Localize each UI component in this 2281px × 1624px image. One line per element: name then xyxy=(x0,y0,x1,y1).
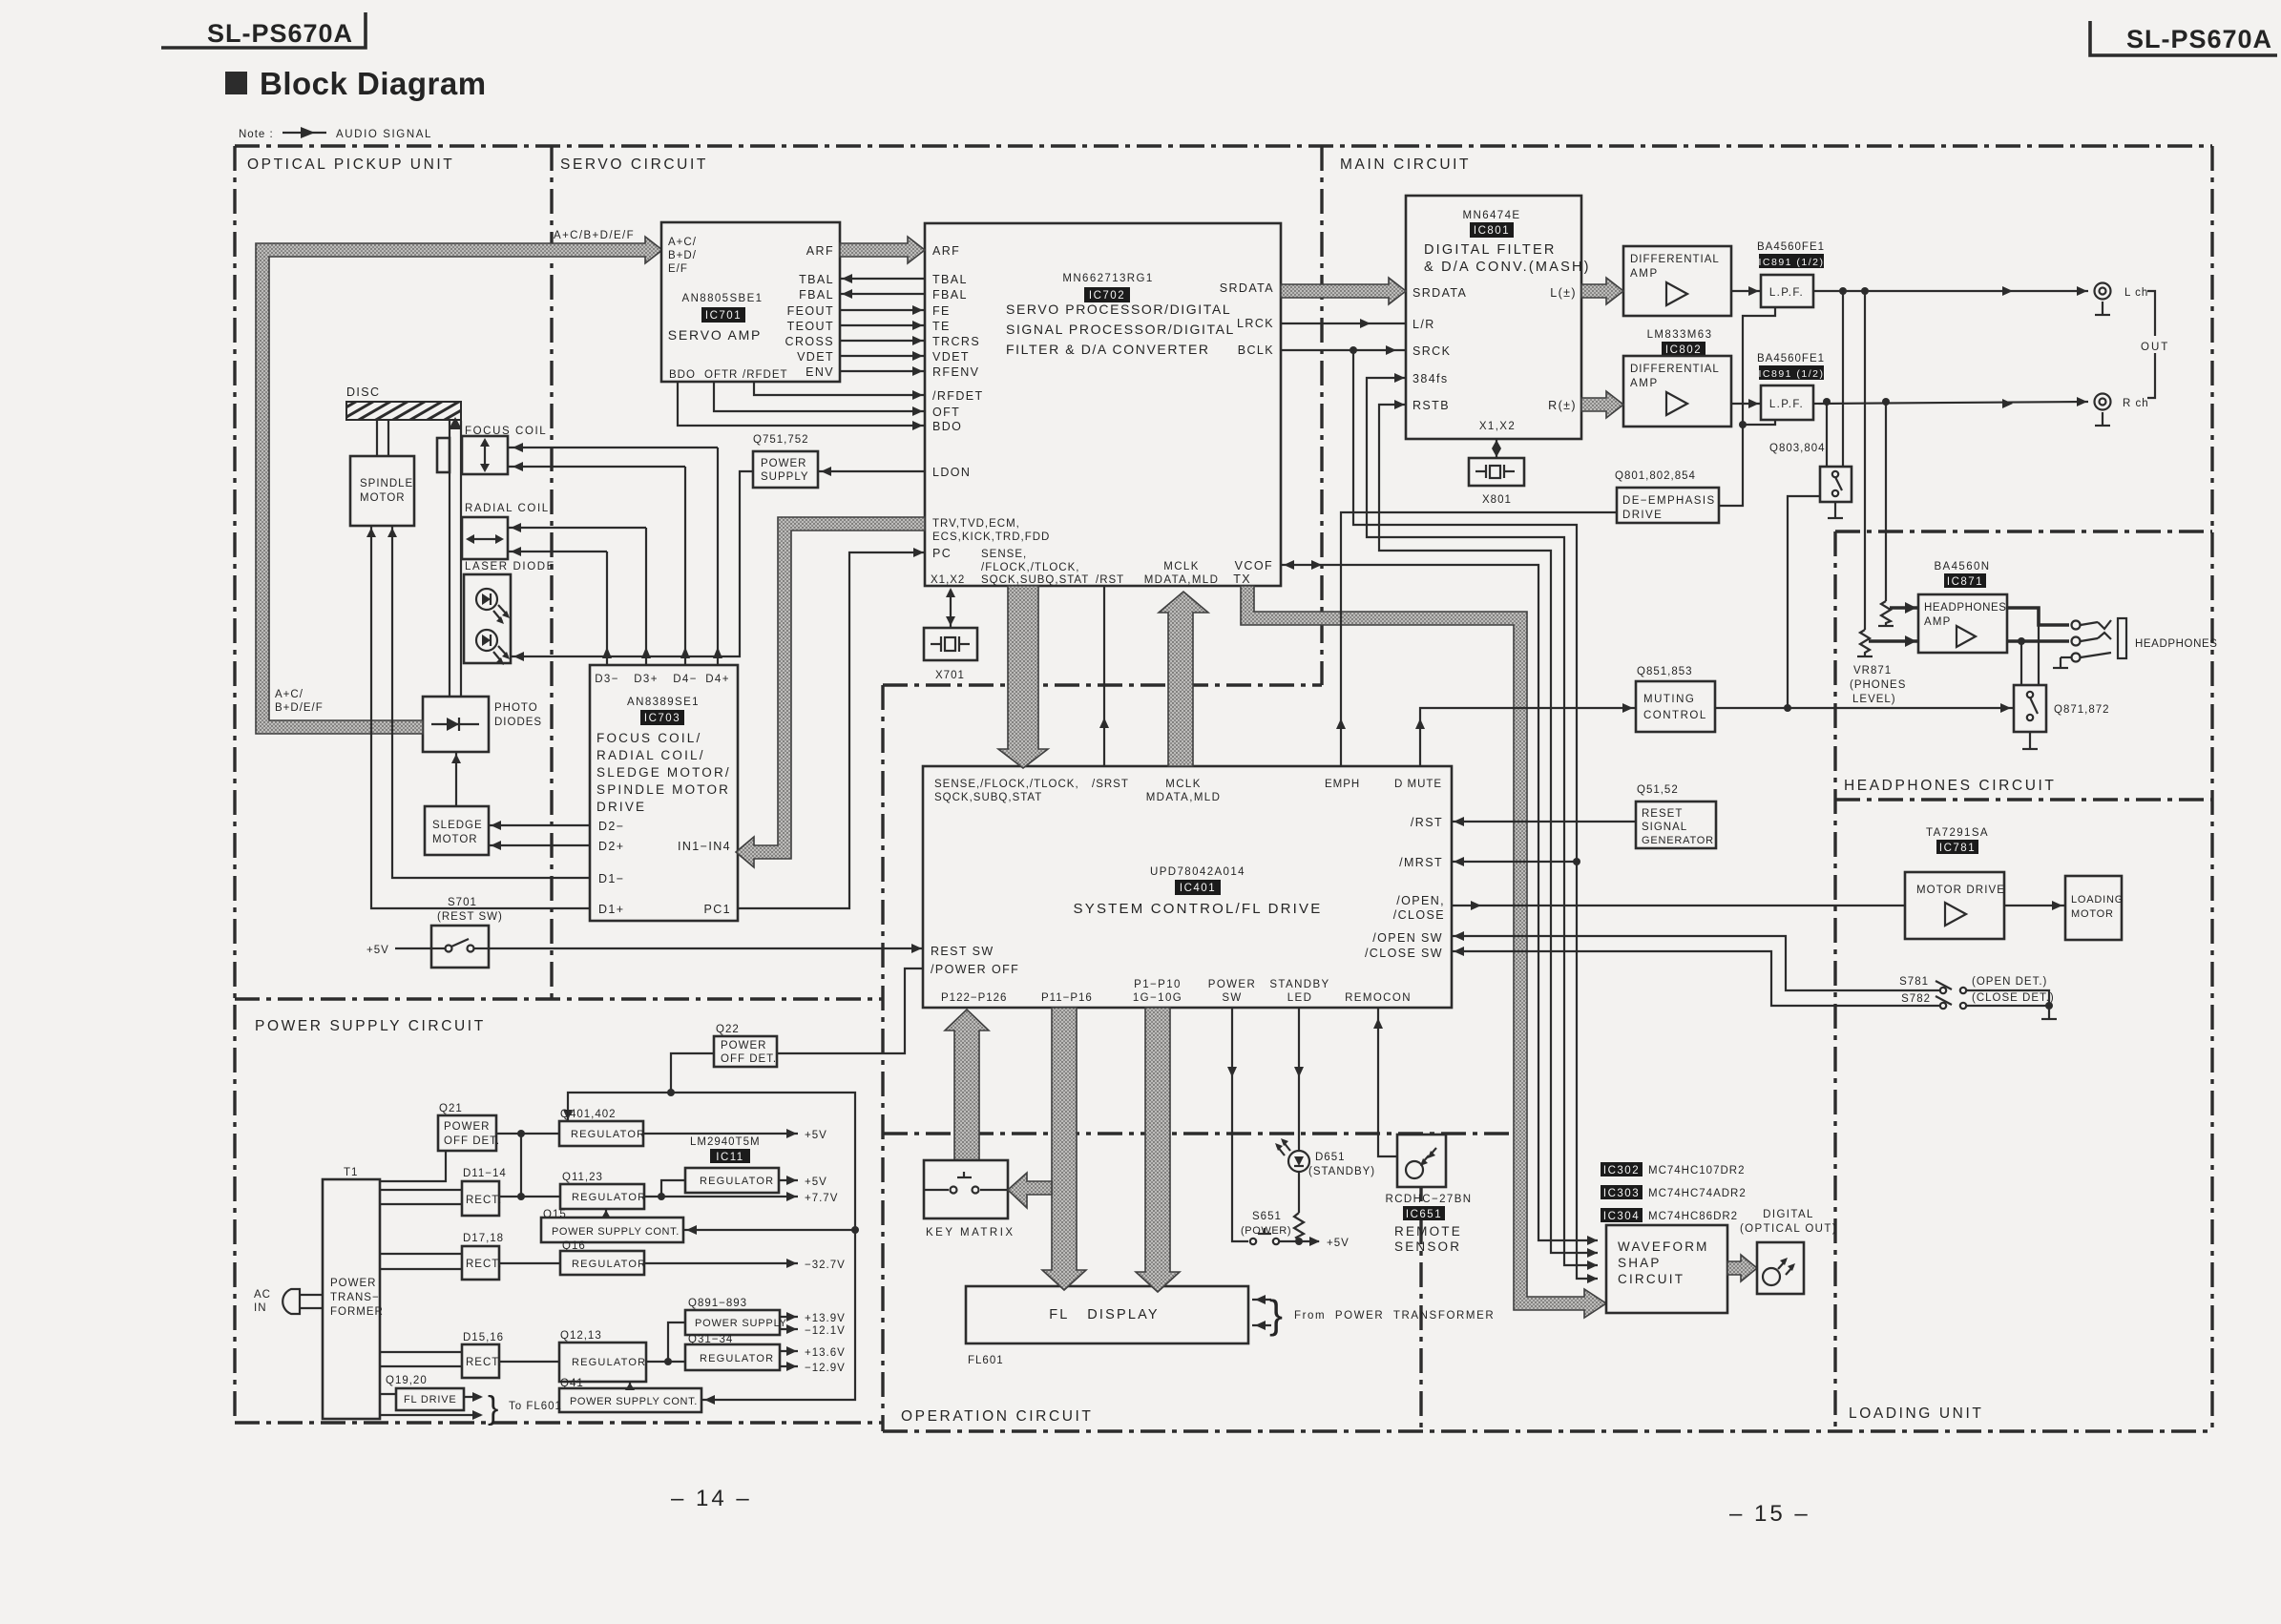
svg-text:TRCRS: TRCRS xyxy=(932,335,980,348)
svg-text:MN662713RG1: MN662713RG1 xyxy=(1062,273,1153,284)
wire laser beam path xyxy=(449,421,450,697)
wire motor drive to loading motor xyxy=(2004,905,2065,906)
wire /OPEN SW from S781 xyxy=(1452,936,1939,990)
svg-text:IC302: IC302 xyxy=(1603,1165,1640,1176)
svg-text:RECT.: RECT. xyxy=(466,1195,502,1206)
svg-text:IN: IN xyxy=(254,1302,267,1314)
svg-text:/RFDET: /RFDET xyxy=(932,389,984,403)
filter L.P.F. L (IC891) xyxy=(1757,241,1825,307)
svg-text:SERVO AMP: SERVO AMP xyxy=(668,327,762,343)
IC302 chip label xyxy=(1601,1162,1745,1176)
svg-text:(POWER): (POWER) xyxy=(1241,1225,1291,1237)
wire L audio line to L ch xyxy=(1813,290,2088,292)
svg-text:LEVEL): LEVEL) xyxy=(1852,694,1896,705)
wire photodiodes-sledge xyxy=(455,752,457,806)
svg-text:SL-PS670A: SL-PS670A xyxy=(207,19,353,48)
wires IC701-IC702 FE..RFENV (right arrows) xyxy=(840,309,925,311)
svg-text:Q851,853: Q851,853 xyxy=(1637,666,1693,677)
svg-text:S701: S701 xyxy=(448,897,477,908)
svg-text:+5V: +5V xyxy=(805,1176,827,1188)
IC703 focus/radial/sledge/spindle drive xyxy=(590,665,738,921)
wire IC801 to X801 (double arrow) xyxy=(1496,439,1497,458)
FL drive Q19,20 xyxy=(386,1375,464,1410)
svg-text:TBAL: TBAL xyxy=(932,273,968,286)
wire Q22 left distribution xyxy=(671,1053,855,1400)
focus coil xyxy=(437,426,547,474)
node L ch connector xyxy=(2095,283,2149,316)
wires spindle motor to IC703 xyxy=(392,526,590,878)
regulator Q16 xyxy=(560,1240,646,1275)
svg-text:SIGNAL: SIGNAL xyxy=(1642,822,1687,833)
svg-text:MOTOR: MOTOR xyxy=(2071,908,2114,920)
wire X701 to IC702 X1,X2 (double arrow) xyxy=(950,590,952,628)
svg-text:T1: T1 xyxy=(344,1167,358,1178)
servo bottom xyxy=(883,683,1322,686)
wire diff amp L to LPF xyxy=(1731,290,1761,292)
operation top xyxy=(883,1132,1514,1135)
svg-text:OFTR: OFTR xyxy=(704,369,738,381)
wires amp outputs to jack xyxy=(2007,608,2069,625)
wire de-emphasis to LPFs xyxy=(1719,307,1775,506)
ground below Q803 xyxy=(1834,502,1836,518)
svg-text:384fs: 384fs xyxy=(1413,372,1449,385)
svg-text:TBAL: TBAL xyxy=(799,273,834,286)
svg-text:D15,16: D15,16 xyxy=(463,1332,504,1343)
svg-text:REGULATOR: REGULATOR xyxy=(571,1129,645,1140)
Q751,752 power supply xyxy=(753,434,818,488)
regulator Q12,13 xyxy=(559,1330,646,1382)
bus L(+-) to diff amp xyxy=(1581,278,1623,304)
svg-text:D2−: D2− xyxy=(598,820,624,833)
svg-text:HEADPHONES CIRCUIT: HEADPHONES CIRCUIT xyxy=(1844,778,2056,794)
svg-text:KEY MATRIX: KEY MATRIX xyxy=(926,1227,1015,1239)
svg-text:MDATA,MLD: MDATA,MLD xyxy=(1144,574,1220,586)
wire Q11,23 out rail xyxy=(644,1196,798,1197)
bus P122-P126 to key matrix xyxy=(945,1010,989,1160)
bus SRDATA IC702 to IC801 xyxy=(1281,278,1406,304)
operation right xyxy=(1419,1134,1422,1431)
svg-text:A+C/B+D/E/F: A+C/B+D/E/F xyxy=(554,230,635,241)
wires coils to IC703 xyxy=(508,447,718,448)
svg-text:SLEDGE MOTOR/: SLEDGE MOTOR/ xyxy=(596,765,731,780)
wire disc-spindle right xyxy=(387,420,389,456)
svg-text:AC: AC xyxy=(254,1289,271,1301)
svg-text:OFF DET.: OFF DET. xyxy=(721,1053,777,1065)
svg-text:LED: LED xyxy=(1287,992,1313,1004)
wire BCLK to SRCK xyxy=(1281,349,1406,351)
svg-text:BCLK: BCLK xyxy=(1238,344,1274,357)
svg-text:SRDATA: SRDATA xyxy=(1413,286,1467,300)
svg-text:SLEDGE: SLEDGE xyxy=(432,820,483,831)
de-emphasis drive Q801 xyxy=(1615,470,1719,523)
svg-text:MUTING: MUTING xyxy=(1643,694,1695,705)
wire REST SW to IC401 xyxy=(489,947,923,949)
svg-text:POWER SUPPLY CIRCUIT: POWER SUPPLY CIRCUIT xyxy=(255,1018,486,1034)
svg-text:REGULATOR: REGULATOR xyxy=(572,1259,646,1270)
svg-text:RECT.: RECT. xyxy=(466,1357,502,1368)
headphones top xyxy=(1835,530,2212,532)
svg-text:REGULATOR: REGULATOR xyxy=(700,1176,774,1187)
crystal X701 xyxy=(924,628,977,681)
power supply Q891-893 xyxy=(685,1298,787,1335)
svg-text:AN8389SE1: AN8389SE1 xyxy=(627,697,700,708)
wire 384fs nested line 3 xyxy=(1367,378,1598,1265)
svg-text:DRIVE: DRIVE xyxy=(1622,510,1663,521)
waveform shap circuit xyxy=(1606,1225,1727,1313)
svg-text:/FLOCK,/TLOCK,: /FLOCK,/TLOCK, xyxy=(981,562,1079,573)
svg-text:TX: TX xyxy=(1233,573,1251,586)
svg-text:Note :: Note : xyxy=(239,129,274,140)
svg-text:CROSS: CROSS xyxy=(785,335,834,348)
IC304 chip label xyxy=(1601,1208,1738,1222)
svg-text:AN8805SBE1: AN8805SBE1 xyxy=(682,293,764,304)
svg-text:FILTER & D/A CONVERTER: FILTER & D/A CONVERTER xyxy=(1006,342,1210,357)
svg-text:MAIN CIRCUIT: MAIN CIRCUIT xyxy=(1340,156,1471,173)
svg-text:FBAL: FBAL xyxy=(799,288,834,302)
svg-text:POWER: POWER xyxy=(721,1040,766,1051)
svg-text:(PHONES: (PHONES xyxy=(1850,679,1906,691)
wires Q871 taps to headphone lines xyxy=(2020,641,2022,685)
rectifier D11-14 xyxy=(462,1168,507,1216)
transistor Q871,872 mute switch xyxy=(2014,685,2110,732)
svg-text:POWER SUPPLY CONT.: POWER SUPPLY CONT. xyxy=(552,1226,680,1238)
svg-text:D1−: D1− xyxy=(598,872,624,885)
svg-text:EMPH: EMPH xyxy=(1325,779,1360,790)
svg-text:/RST: /RST xyxy=(1096,574,1124,586)
svg-text:IC781: IC781 xyxy=(1939,843,1976,854)
svg-text:PC: PC xyxy=(932,547,952,560)
LED D651 standby xyxy=(1275,1008,1375,1177)
svg-text:IC802: IC802 xyxy=(1665,344,1702,356)
svg-text:+5V: +5V xyxy=(366,945,389,956)
remote sensor IC651 xyxy=(1385,1135,1472,1254)
optical/servo divider xyxy=(550,146,553,999)
svg-text:+5V: +5V xyxy=(1327,1238,1350,1249)
svg-text:RFENV: RFENV xyxy=(932,365,979,379)
svg-text:X701: X701 xyxy=(935,670,965,681)
wire RSTB nested line 4 xyxy=(1379,405,1598,1253)
svg-text:ENV: ENV xyxy=(806,365,834,379)
wire Q21 output rail xyxy=(496,1133,559,1135)
main circuit left xyxy=(1320,146,1323,685)
svg-text:IC303: IC303 xyxy=(1603,1188,1640,1199)
wires Q803 taps to audio lines xyxy=(1826,402,1828,467)
svg-text:D3+: D3+ xyxy=(634,674,659,685)
wire Q22 to IC401 /POWER OFF xyxy=(777,968,923,1053)
bus arrow to key matrix xyxy=(1008,1173,1052,1208)
svg-text:From POWER TRANSFORMER: From POWER TRANSFORMER xyxy=(1294,1310,1495,1322)
bus ARF IC701 to IC702 xyxy=(840,237,925,263)
node R ch connector xyxy=(2095,394,2149,427)
svg-text:ARF: ARF xyxy=(932,244,960,258)
svg-text:B+D/E/F: B+D/E/F xyxy=(275,702,324,714)
svg-text:IN1−IN4: IN1−IN4 xyxy=(678,840,731,853)
svg-text:MN6474E: MN6474E xyxy=(1463,210,1521,221)
from power transformer arrows xyxy=(1252,1292,1495,1337)
regulator Q11,23 xyxy=(560,1172,646,1209)
svg-text:DIGITAL: DIGITAL xyxy=(1763,1209,1814,1220)
svg-text:IC801: IC801 xyxy=(1474,225,1510,237)
svg-text:REGULATOR: REGULATOR xyxy=(700,1353,774,1364)
outer frame top xyxy=(235,144,2212,147)
svg-text:TA7291SA: TA7291SA xyxy=(1926,827,1989,839)
filter L.P.F. R (IC891) xyxy=(1757,353,1825,420)
transistor Q851,853 muting control xyxy=(1636,666,1715,732)
svg-text:MOTOR: MOTOR xyxy=(432,834,478,845)
svg-text:Q891−893: Q891−893 xyxy=(688,1298,747,1309)
svg-text:FBAL: FBAL xyxy=(932,288,968,302)
ground below Q871 xyxy=(2029,732,2031,749)
resistor VR871 L tap xyxy=(1864,291,1866,630)
svg-text:VCOF: VCOF xyxy=(1235,559,1273,573)
svg-text:MC74HC107DR2: MC74HC107DR2 xyxy=(1648,1165,1745,1176)
svg-text:STANDBY: STANDBY xyxy=(1269,979,1329,990)
svg-text:SHAP: SHAP xyxy=(1618,1256,1662,1270)
node digital optical out xyxy=(1740,1209,1837,1294)
bus MCLK xyxy=(1159,592,1208,766)
svg-text:LM833M63: LM833M63 xyxy=(1647,329,1713,341)
bus waveform to optical out xyxy=(1727,1255,1757,1281)
switch S782 close det xyxy=(1901,992,2055,1009)
rectifier D17,18 xyxy=(462,1233,504,1280)
svg-text:P1−P10: P1−P10 xyxy=(1134,979,1182,990)
wire LRCK to L/R xyxy=(1281,323,1406,324)
svg-text:REMOCON: REMOCON xyxy=(1345,992,1412,1004)
op-amp IC802 differential amp L xyxy=(1623,246,1731,316)
svg-text:A+C/: A+C/ xyxy=(668,237,697,248)
AC IN plug xyxy=(254,1289,323,1314)
svg-text:/OPEN,: /OPEN, xyxy=(1396,894,1445,907)
switch S781 open det xyxy=(1899,976,2049,1006)
wire /RST from reset gen xyxy=(1452,821,1636,822)
svg-text:AMP: AMP xyxy=(1630,268,1659,280)
wire /SRST xyxy=(1103,586,1105,766)
ground S781/S782 xyxy=(2048,1006,2050,1019)
svg-text:SIGNAL PROCESSOR/DIGITAL: SIGNAL PROCESSOR/DIGITAL xyxy=(1006,322,1235,337)
svg-text:L.P.F.: L.P.F. xyxy=(1769,399,1804,410)
svg-text:LOADING UNIT: LOADING UNIT xyxy=(1849,1405,1983,1422)
wire SRCK branch nested line 2 xyxy=(1353,350,1598,1279)
headphone jack xyxy=(2081,618,2218,658)
svg-text:BDO: BDO xyxy=(932,420,962,433)
svg-text:Q751,752: Q751,752 xyxy=(753,434,809,446)
headphones bottom / loading top xyxy=(1835,798,2212,801)
svg-text:MOTOR: MOTOR xyxy=(360,492,406,504)
bus P1-P10 to FL display xyxy=(1136,1008,1180,1292)
svg-text:D651: D651 xyxy=(1315,1152,1346,1163)
wires VR taps into amp xyxy=(1890,606,1918,610)
wire POWER SW down to S651 xyxy=(1232,1008,1248,1241)
Block Diagram heading xyxy=(225,66,487,101)
svg-text:B+D/: B+D/ xyxy=(668,250,697,261)
wire laser diode to Q751 power supply xyxy=(511,471,753,656)
svg-text:S782: S782 xyxy=(1901,993,1931,1005)
svg-text:ECS,KICK,TRD,FDD: ECS,KICK,TRD,FDD xyxy=(932,531,1050,543)
bus R(+-) to diff amp xyxy=(1581,391,1623,418)
svg-text:IC651: IC651 xyxy=(1406,1209,1442,1220)
bus TRV,TVD... IC702 to IC703 IN1-IN4 xyxy=(736,517,925,867)
svg-text:TRV,TVD,ECM,: TRV,TVD,ECM, xyxy=(932,518,1020,530)
svg-text:D1+: D1+ xyxy=(598,903,624,916)
svg-text:−12.1V: −12.1V xyxy=(805,1325,846,1337)
svg-text:IC702: IC702 xyxy=(1089,290,1125,302)
svg-text:−32.7V: −32.7V xyxy=(805,1260,846,1271)
headphones/loading left xyxy=(1833,531,1836,1428)
svg-text:(STANDBY): (STANDBY) xyxy=(1308,1166,1375,1177)
svg-text:TEOUT: TEOUT xyxy=(787,320,834,333)
rectifier D15,16 xyxy=(462,1332,504,1378)
regulator Q401,402 xyxy=(559,1109,645,1146)
transistor Q21 power off det xyxy=(438,1103,500,1151)
transistor Q15 power supply cont xyxy=(541,1209,683,1242)
op-amp IC802 differential amp R xyxy=(1623,329,1731,427)
op-amp IC701 servo amp AN8805SBE1 xyxy=(661,222,840,382)
svg-text:DIODES: DIODES xyxy=(494,717,542,728)
svg-text:RADIAL COIL/: RADIAL COIL/ xyxy=(596,748,705,762)
svg-text:D MUTE: D MUTE xyxy=(1394,779,1442,790)
transistor Q22 power off det xyxy=(714,1024,777,1067)
svg-text:LRCK: LRCK xyxy=(1237,317,1274,330)
wire REMOCON to remote sensor xyxy=(1378,1008,1397,1156)
svg-text:/RFDET: /RFDET xyxy=(743,369,788,381)
svg-text:GENERATOR: GENERATOR xyxy=(1642,835,1714,846)
S701 rest switch xyxy=(431,897,503,968)
outer frame right xyxy=(2210,146,2213,1431)
svg-text:D11−14: D11−14 xyxy=(463,1168,507,1179)
wire Q751 to IC702 LDON xyxy=(818,470,925,472)
svg-text:IC891 (1/2): IC891 (1/2) xyxy=(1758,257,1824,268)
svg-text:X1,X2: X1,X2 xyxy=(1479,421,1516,432)
IC303 chip label xyxy=(1601,1185,1747,1199)
IC401 system control / FL drive xyxy=(923,766,1452,1008)
crystal X801 xyxy=(1469,458,1524,506)
svg-text:POWER: POWER xyxy=(1208,979,1256,990)
svg-text:/SRST: /SRST xyxy=(1092,779,1129,790)
svg-text:CONTROL: CONTROL xyxy=(1643,710,1707,721)
svg-text:OPERATION CIRCUIT: OPERATION CIRCUIT xyxy=(901,1408,1094,1425)
radial coil xyxy=(462,503,550,559)
wires IC701 bottom to IC702 /RFDET OFT BDO xyxy=(754,382,925,395)
svg-text:D4−: D4− xyxy=(673,674,698,685)
svg-text:OFT: OFT xyxy=(932,406,960,419)
svg-text:SERVO CIRCUIT: SERVO CIRCUIT xyxy=(560,156,708,173)
spindle motor xyxy=(350,456,414,526)
wire D MUTE to muting control xyxy=(1420,708,1636,766)
svg-text:MCLK: MCLK xyxy=(1165,779,1202,790)
svg-text:SENSE,/FLOCK,/TLOCK,: SENSE,/FLOCK,/TLOCK, xyxy=(934,779,1079,790)
wire VCOF nested line 1 xyxy=(1281,565,1598,1240)
svg-text:Q12,13: Q12,13 xyxy=(560,1330,602,1342)
transistor Q41 power supply cont xyxy=(559,1378,701,1412)
svg-text:R ch: R ch xyxy=(2123,398,2149,409)
bus A+C/B+D/E/F photo diodes to servo amp xyxy=(256,237,662,734)
svg-text:IC401: IC401 xyxy=(1180,883,1216,894)
resistor below D651 xyxy=(1298,1172,1300,1213)
svg-text:/CLOSE SW: /CLOSE SW xyxy=(1365,947,1443,960)
laser diode xyxy=(464,561,555,665)
wire EMPH to de-emphasis xyxy=(1341,512,1617,766)
svg-text:PC1: PC1 xyxy=(703,903,731,916)
svg-text:X1,X2: X1,X2 xyxy=(931,574,965,586)
svg-text:REMOTE: REMOTE xyxy=(1394,1224,1462,1239)
svg-text:VDET: VDET xyxy=(797,350,834,364)
svg-text:MDATA,MLD: MDATA,MLD xyxy=(1146,792,1222,803)
svg-text:SENSE,: SENSE, xyxy=(981,549,1027,560)
svg-text:BA4560FE1: BA4560FE1 xyxy=(1757,353,1825,364)
svg-text:LASER DIODE: LASER DIODE xyxy=(465,561,555,573)
svg-text:BA4560FE1: BA4560FE1 xyxy=(1757,241,1825,253)
svg-text:/POWER OFF: /POWER OFF xyxy=(931,963,1019,976)
regulator IC11 xyxy=(685,1136,779,1193)
svg-text:POWER: POWER xyxy=(330,1278,376,1289)
svg-text:D17,18: D17,18 xyxy=(463,1233,504,1244)
svg-text:Q401,402: Q401,402 xyxy=(560,1109,617,1120)
svg-text:RESET: RESET xyxy=(1642,808,1683,820)
svg-text:+5V: +5V xyxy=(805,1130,827,1141)
svg-text:SRDATA: SRDATA xyxy=(1220,281,1274,295)
svg-text:SUPPLY: SUPPLY xyxy=(761,471,809,483)
svg-text:−12.9V: −12.9V xyxy=(805,1363,846,1374)
svg-text:RECT.: RECT. xyxy=(466,1259,502,1270)
svg-text:FL DISPLAY: FL DISPLAY xyxy=(1049,1307,1160,1322)
svg-text:FE: FE xyxy=(932,304,951,318)
svg-text:POWER SUPPLY: POWER SUPPLY xyxy=(695,1318,787,1329)
loading motor xyxy=(2065,876,2124,940)
svg-text:IC871: IC871 xyxy=(1947,576,1983,588)
note audio signal xyxy=(239,127,432,140)
svg-text:To FL601: To FL601 xyxy=(509,1401,562,1412)
svg-text:+13.9V: +13.9V xyxy=(805,1313,846,1324)
svg-text:– 14 –: – 14 – xyxy=(671,1486,752,1511)
switch S651 power xyxy=(1241,1211,1296,1244)
svg-text:POWER: POWER xyxy=(761,458,806,469)
wire disc-spindle xyxy=(376,420,378,456)
svg-text:TE: TE xyxy=(932,320,951,333)
node +5V junction xyxy=(1295,1238,1303,1245)
svg-text:SPINDLE MOTOR: SPINDLE MOTOR xyxy=(596,782,730,797)
svg-text:(REST SW): (REST SW) xyxy=(437,911,503,923)
svg-text:1G−10G: 1G−10G xyxy=(1133,992,1182,1004)
svg-text:SQCK,SUBQ,STAT: SQCK,SUBQ,STAT xyxy=(934,792,1042,803)
svg-text:TRANS−: TRANS− xyxy=(330,1292,380,1303)
wires IC701-IC702 TBAL/FBAL (left arrows) xyxy=(840,278,925,280)
svg-text:SYSTEM CONTROL/FL DRIVE: SYSTEM CONTROL/FL DRIVE xyxy=(1074,901,1323,917)
svg-text:MC74HC86DR2: MC74HC86DR2 xyxy=(1648,1211,1738,1222)
svg-text:Q51,52: Q51,52 xyxy=(1637,784,1679,796)
svg-text:/MRST: /MRST xyxy=(1399,856,1443,869)
wire Q21 input from transformer xyxy=(380,1151,446,1181)
svg-text:Block Diagram: Block Diagram xyxy=(260,66,487,101)
svg-text:IC703: IC703 xyxy=(644,713,680,724)
op-amp IC781 motor drive xyxy=(1905,827,2005,939)
svg-text:LDON: LDON xyxy=(932,466,971,479)
svg-text:Q21: Q21 xyxy=(439,1103,463,1114)
transistor Q803,804 mute switch xyxy=(1769,443,1852,502)
disc xyxy=(346,385,461,420)
wire diff amp R to LPF xyxy=(1731,403,1761,405)
svg-text:BA4560N: BA4560N xyxy=(1934,561,1990,573)
svg-text:Q22: Q22 xyxy=(716,1024,740,1035)
wire PC1 to IC702 PC xyxy=(738,552,925,908)
svg-text:FL DRIVE: FL DRIVE xyxy=(404,1394,457,1405)
svg-text:DRIVE: DRIVE xyxy=(596,800,646,814)
bus P11-P16 to FL display xyxy=(1042,1008,1086,1290)
svg-text:S781: S781 xyxy=(1899,976,1929,988)
svg-text:Q19,20: Q19,20 xyxy=(386,1375,428,1386)
svg-text:DIFFERENTIAL: DIFFERENTIAL xyxy=(1630,254,1720,265)
svg-text:Q11,23: Q11,23 xyxy=(562,1172,603,1183)
svg-text:IC891 (1/2): IC891 (1/2) xyxy=(1758,368,1824,380)
